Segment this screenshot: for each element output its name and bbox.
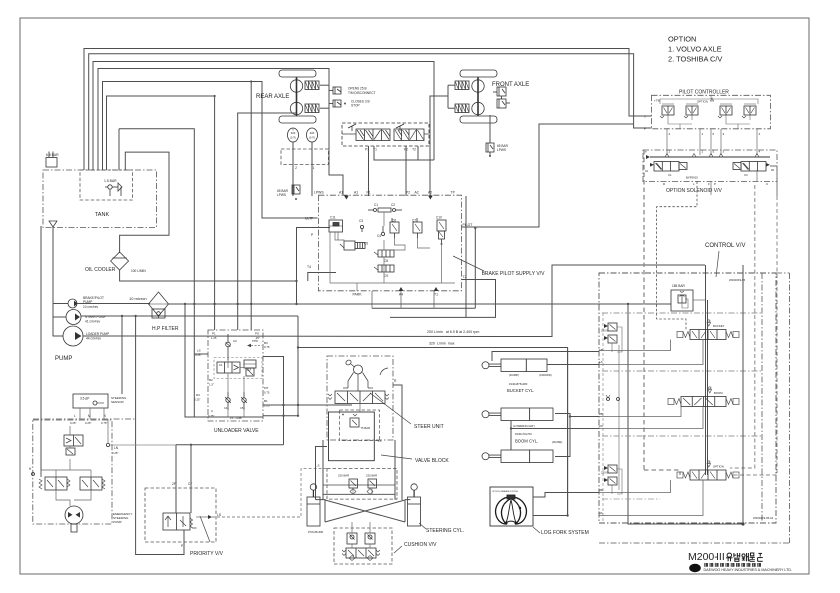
- svg-text:200 L/min at 6.9 B at 2,400: 200 L/min at 6.9 B at 2,400 rpm: [427, 330, 479, 334]
- wire boom A/B: [599, 407, 681, 417]
- wire tank-to-pilot-controller T line: [84, 49, 652, 171]
- svg-text:44 cm³/rev: 44 cm³/rev: [86, 337, 101, 341]
- svg-text:C1: C1: [668, 173, 672, 177]
- option solenoid valve right: [741, 162, 766, 172]
- emergency steering boundary: [33, 420, 112, 524]
- wire steer R return: [393, 385, 402, 500]
- pressure switch OPENS 25B: [333, 87, 341, 94]
- steer handle arc: [380, 368, 388, 375]
- svg-text:MT: MT: [264, 386, 268, 390]
- pilot controller boundary: [652, 95, 771, 129]
- steer relief box: [340, 410, 380, 441]
- svg-text:#140x875x480: #140x875x480: [509, 382, 528, 386]
- svg-text:PUMP: PUMP: [55, 356, 72, 362]
- option solenoid rail: [650, 156, 770, 158]
- front axle diff lock block: [497, 87, 506, 96]
- front axle tire bottom: [460, 116, 497, 123]
- svg-text:T: T: [644, 115, 646, 119]
- wire steer pump tap to priority: [136, 316, 184, 555]
- pilot valve 1: [662, 106, 674, 115]
- brake valve pedal link: [342, 133, 356, 135]
- wire unloader internals: [227, 360, 229, 368]
- wire cushion links: [351, 522, 353, 533]
- wire steer pump tap to sensor: [121, 316, 123, 394]
- svg-text:OPTION: OPTION: [668, 35, 696, 44]
- svg-text:R3: R3: [196, 393, 200, 397]
- svg-text:L: L: [74, 414, 76, 418]
- wire brake valve T2 drop: [417, 146, 419, 160]
- front axle brake disc bottom: [472, 102, 484, 114]
- svg-text:LPWS: LPWS: [314, 191, 324, 195]
- svg-text:1.5": 1.5": [209, 383, 214, 387]
- log fork jaws: [496, 497, 510, 524]
- unloader TPW dashed stub: [251, 345, 262, 347]
- cushion bottom diamonds: [349, 556, 355, 561]
- wire log fork lines: [533, 493, 599, 498]
- suction strainer: [49, 221, 57, 227]
- emergency spool valve right: [80, 477, 102, 490]
- steer unit spring left: [328, 394, 332, 400]
- svg-text:0.25": 0.25": [195, 353, 201, 357]
- svg-text:C2: C2: [391, 203, 395, 207]
- wire pilot drain to tank: [119, 129, 194, 417]
- wire steer pump output: [81, 315, 298, 317]
- steer unit spring right: [385, 394, 389, 400]
- control valve inner boundary: [761, 273, 763, 523]
- wire loader pump output: [83, 265, 705, 337]
- pressure switch 65 BAR LPWS front: [486, 143, 494, 152]
- wire T4 drain: [308, 273, 336, 282]
- svg-text:BRAKE PILOT SUPPLY V/V: BRAKE PILOT SUPPLY V/V: [482, 271, 545, 277]
- wire oil cooler inlet: [120, 152, 169, 252]
- wire unloader B3 drop: [263, 357, 284, 445]
- svg-text:3A: 3A: [599, 511, 603, 515]
- svg-text:230 B: 230 B: [601, 471, 608, 475]
- svg-text:1X: 1X: [378, 439, 382, 443]
- svg-text:TP: TP: [451, 191, 456, 195]
- wire rear axle brake line: [98, 69, 329, 171]
- priority valve spool: [163, 513, 190, 530]
- svg-text:#70x35x390: #70x35x390: [308, 530, 324, 534]
- accumulator 1: [288, 128, 299, 142]
- svg-text:T4: T4: [307, 265, 311, 269]
- unloader solenoid C1A: [244, 360, 256, 368]
- wire priority supply line: [176, 444, 284, 446]
- wire pilot line after filter: [169, 303, 672, 305]
- wire PARK drop: [356, 283, 358, 291]
- control valve relief drain rail: [618, 345, 620, 490]
- svg-text:CONTROL V/V: CONTROL V/V: [705, 243, 745, 249]
- wire tank return drop: [118, 129, 120, 170]
- svg-text:C3: C3: [744, 173, 748, 177]
- priority valve spring: [190, 518, 197, 528]
- wire priority feeds: [175, 445, 177, 513]
- svg-text:C11: C11: [330, 216, 336, 220]
- wire sensor drops: [79, 408, 81, 419]
- svg-text:VALVE BLOCK: VALVE BLOCK: [415, 458, 449, 464]
- oil cooler: [111, 252, 129, 270]
- rear axle caliper top: [305, 81, 319, 90]
- pilot valve 2: [686, 106, 698, 115]
- svg-text:LS: LS: [217, 513, 222, 517]
- svg-text:(CROWD): (CROWD): [539, 373, 552, 377]
- svg-text:02: 02: [771, 168, 775, 172]
- option valve spool: [690, 470, 726, 480]
- wire steer spool to relief: [359, 404, 361, 413]
- svg-text:BUCKET CYL.: BUCKET CYL.: [507, 388, 534, 393]
- pressure switch 65 BAR LPWS rear: [292, 185, 300, 194]
- svg-text:0.25": 0.25": [112, 451, 118, 455]
- svg-text:(0.7l): (0.7l): [290, 136, 296, 140]
- svg-text:+TB: +TB: [654, 99, 660, 103]
- brake pilot pump: [68, 299, 77, 308]
- wire suction line: [53, 227, 63, 336]
- rear axle brake disc bottom: [290, 102, 302, 114]
- svg-text:C2: C2: [233, 339, 237, 343]
- svg-text:P: P: [181, 544, 183, 548]
- wire brake pump output: [77, 303, 150, 305]
- svg-text:C9: C9: [384, 274, 388, 278]
- svg-text:320 L/min max: 320 L/min max: [429, 342, 455, 346]
- svg-text:1.25: 1.25: [211, 336, 217, 340]
- svg-text:0.75: 0.75: [264, 391, 270, 395]
- control valve inner left dashed edge: [602, 313, 604, 523]
- svg-text:P1: P1: [367, 191, 371, 195]
- svg-text:T1: T1: [434, 293, 438, 297]
- wire TP drop: [465, 196, 467, 317]
- emergency steering pump: [65, 506, 83, 524]
- svg-text:T: T: [645, 150, 647, 154]
- svg-text:OIL COOLER: OIL COOLER: [85, 267, 116, 273]
- steer relief 75 BAR: [350, 418, 359, 427]
- svg-text:1A: 1A: [599, 360, 603, 364]
- wire PG drop: [250, 82, 252, 331]
- svg-text:0.75": 0.75": [208, 414, 214, 418]
- logo korean line: [705, 563, 708, 566]
- svg-text:A2: A2: [415, 191, 419, 195]
- option solenoid boundary: [643, 150, 777, 182]
- svg-text:2A: 2A: [599, 424, 603, 428]
- brake supply internal tank rail: [330, 282, 455, 284]
- wire brake supply internals: [383, 212, 385, 226]
- title korean: [727, 553, 731, 557]
- svg-text:M200-: M200-: [688, 551, 718, 563]
- svg-text:R2: R2: [209, 378, 213, 382]
- steer unit spool: [335, 391, 385, 404]
- wire brake valve tank return: [93, 62, 434, 171]
- cushion check left: [347, 533, 357, 544]
- svg-text:400: 400: [310, 131, 315, 135]
- svg-text:LPWS: LPWS: [497, 148, 506, 152]
- wire bucket cyl lines: [492, 352, 599, 362]
- option circuit bottom boundary: [599, 542, 790, 544]
- steering relief boundary: [327, 469, 397, 500]
- svg-text:OPTION SOLENOID V/V: OPTION SOLENOID V/V: [666, 188, 723, 194]
- svg-text:CUSHION V/V: CUSHION V/V: [404, 542, 437, 548]
- svg-text:230 BAR: 230 BAR: [338, 474, 349, 478]
- priority valve boundary: [145, 488, 216, 542]
- svg-text:C4: C4: [224, 406, 228, 410]
- svg-text:REAR AXLE: REAR AXLE: [256, 94, 289, 100]
- svg-text:STEER UNIT: STEER UNIT: [414, 424, 444, 430]
- steering relief rails: [323, 484, 395, 486]
- wire pilot to solenoid connectors: [666, 129, 668, 155]
- svg-text:BUCKET: BUCKET: [713, 324, 725, 328]
- svg-text:01: 01: [645, 169, 649, 173]
- bucket valve spool: [690, 330, 726, 340]
- svg-text:C8: C8: [384, 259, 388, 263]
- rear axle brake disc top: [290, 80, 302, 92]
- valve block side pipes: [322, 440, 324, 500]
- svg-text:SENSOR: SENSOR: [111, 400, 125, 404]
- unloader main spool C1: [217, 362, 240, 373]
- boom cylinder upper: [482, 411, 489, 418]
- boom cylinder lower: [482, 453, 489, 460]
- steer unit yoke: [348, 373, 354, 389]
- svg-text:A1: A1: [339, 191, 343, 195]
- svg-text:TPW: TPW: [252, 339, 258, 343]
- svg-text:P: P: [644, 127, 646, 131]
- svg-text:41 cm³/rev: 41 cm³/rev: [85, 320, 100, 324]
- wire tank-to-pilot-controller P line: [89, 54, 652, 170]
- emergency solenoid valve: [64, 435, 83, 446]
- accumulator manifold box: [281, 149, 328, 165]
- svg-text:C10: C10: [436, 216, 442, 220]
- svg-text:BOOM CYL.: BOOM CYL.: [515, 439, 538, 444]
- pilot controller internal rails: [660, 99, 758, 104]
- svg-text:1B: 1B: [599, 348, 603, 352]
- brake valve pedal left: [348, 124, 356, 128]
- svg-text:PG: PG: [255, 332, 260, 336]
- wire bucket A/B: [599, 340, 671, 351]
- svg-text:W2003F9-05-16: W2003F9-05-16: [753, 516, 774, 520]
- steer unit boundary: [327, 356, 393, 440]
- control valve P rail: [705, 265, 707, 475]
- cushion spool: [346, 548, 376, 558]
- log fork boundary: [490, 487, 533, 526]
- svg-text:P1: P1: [212, 332, 216, 336]
- control valve dashed sections: [602, 312, 762, 314]
- svg-text:P2: P2: [406, 191, 410, 195]
- svg-text:(RAISE): (RAISE): [552, 440, 562, 444]
- wire boom cyl lines: [511, 421, 599, 429]
- wire brake valve P1 drop: [368, 146, 370, 196]
- svg-text:OPENS 25 B: OPENS 25 B: [348, 87, 367, 91]
- steering wheel: [345, 359, 352, 366]
- valve block box: [329, 412, 375, 461]
- pilot valve 3: [720, 106, 732, 115]
- wire axle line drop: [238, 113, 296, 330]
- wire unloader B1 stub: [263, 415, 298, 417]
- LMK port line: [33, 418, 135, 420]
- svg-text:C5: C5: [240, 406, 244, 410]
- emergency spool valve left: [45, 477, 67, 490]
- svg-text:230 BAR: 230 BAR: [366, 474, 377, 478]
- svg-text:STOP: STOP: [351, 104, 360, 108]
- wire ULTP line: [103, 82, 318, 219]
- svg-text:230 B: 230 B: [601, 329, 608, 333]
- wire tank return riser: [628, 304, 743, 524]
- boom valve spool: [681, 397, 726, 407]
- unloader valve boundary: [208, 330, 263, 421]
- svg-text:F: F: [708, 182, 710, 186]
- wire front axle brake line: [107, 96, 215, 170]
- svg-text:185 BAR: 185 BAR: [672, 284, 685, 288]
- unloader inner dashed box: [214, 358, 262, 379]
- svg-text:H.P FILTER: H.P FILTER: [152, 326, 179, 332]
- wire A4 T1 return manifold: [372, 307, 475, 309]
- front axle brake disc top: [472, 80, 484, 92]
- wire emergency internals: [56, 490, 70, 506]
- svg-text:C1: C1: [219, 363, 223, 367]
- svg-text:0.25": 0.25": [85, 421, 91, 425]
- cushion valve boundary: [334, 528, 392, 564]
- svg-text:CF: CF: [188, 482, 192, 486]
- wire tank left drop: [40, 226, 42, 477]
- rear axle caliper bottom: [305, 104, 319, 113]
- svg-text:P: P: [714, 182, 716, 186]
- svg-text:(LOWER/FLOAT): (LOWER/FLOAT): [513, 424, 535, 428]
- svg-text:0.25": 0.25": [70, 421, 76, 425]
- steering cylinder left: [310, 484, 316, 490]
- wire option A/B: [599, 480, 671, 493]
- wire brake valve P2 drop: [405, 146, 407, 196]
- svg-text:BXP5915: BXP5915: [686, 176, 698, 180]
- svg-text:LPWS: LPWS: [277, 193, 286, 197]
- svg-text:400: 400: [291, 131, 296, 135]
- brake valve spool left: [356, 129, 390, 141]
- svg-text:LS→A4B: LS→A4B: [230, 416, 242, 420]
- pilot valve 4: [744, 106, 756, 115]
- wire steer pump supply right: [567, 350, 569, 516]
- svg-text:DAEWOO HEAVY INDUSTRIES &: DAEWOO HEAVY INDUSTRIES & MACHINERY LTD.: [704, 568, 793, 572]
- svg-text:1.5 BAR: 1.5 BAR: [104, 179, 117, 183]
- svg-text:PUMP: PUMP: [113, 520, 122, 524]
- svg-text:10 micron: 10 micron: [129, 296, 147, 301]
- svg-text:3.5 ΔP: 3.5 ΔP: [80, 397, 89, 401]
- wire pilot supply to controller: [462, 124, 634, 227]
- svg-text:6.5 BAR: 6.5 BAR: [46, 153, 59, 157]
- svg-text:PRIORITY V/V: PRIORITY V/V: [190, 551, 224, 557]
- tank assembly boundary: [43, 170, 157, 228]
- wire brake valve T1 drop: [374, 146, 434, 160]
- svg-text:T/M DISCONNECT: T/M DISCONNECT: [348, 91, 376, 95]
- steering cylinder right: [411, 484, 417, 490]
- svg-text:10 cm³/rev: 10 cm³/rev: [83, 305, 98, 309]
- anti cavitation checks: [350, 489, 356, 495]
- svg-text:#130x70x700: #130x70x700: [515, 432, 532, 436]
- wire accumulator 1 drop: [292, 142, 294, 196]
- accumulator 2: [307, 128, 318, 142]
- wire option solenoid drops: [657, 182, 697, 330]
- rear axle tire top: [279, 70, 316, 77]
- svg-text:LS: LS: [197, 349, 201, 353]
- brake valve box: [342, 123, 429, 146]
- brake valve pedal right: [396, 124, 404, 128]
- svg-text:BOOM: BOOM: [714, 391, 723, 395]
- svg-text:2. TOSHIBA C/V: 2. TOSHIBA C/V: [668, 55, 722, 64]
- wire pilot junction drop: [474, 228, 476, 308]
- svg-text:OPTION: OPTION: [713, 465, 724, 469]
- wire 185 bar to P rail: [693, 299, 705, 301]
- wire steer unit L output: [316, 447, 328, 500]
- svg-text:TANK: TANK: [95, 212, 110, 218]
- wire rear brake junction: [329, 69, 343, 196]
- boom check ports: [607, 398, 610, 401]
- wire T2 return line: [390, 280, 496, 318]
- svg-text:0.25": 0.25": [194, 398, 200, 402]
- option circuit right boundary: [789, 273, 791, 543]
- svg-text:C1: C1: [374, 203, 378, 207]
- svg-text:UNLOADER VALVE: UNLOADER VALVE: [214, 428, 259, 434]
- bucket cylinder: [482, 362, 489, 369]
- rear axle tire bottom: [279, 116, 316, 123]
- steer pump: [66, 310, 81, 325]
- svg-text:1: 1: [313, 166, 315, 170]
- svg-text:3B: 3B: [599, 488, 603, 492]
- svg-text:100 L/MIN: 100 L/MIN: [131, 269, 146, 273]
- svg-text:ULTP: ULTP: [305, 217, 314, 221]
- svg-text:LN: LN: [114, 446, 119, 450]
- front axle caliper bottom: [455, 104, 469, 113]
- svg-text:M: M: [88, 414, 91, 418]
- svg-text:PILOT CONTROLLER: PILOT CONTROLLER: [679, 90, 729, 96]
- wire P port tap: [297, 228, 331, 305]
- breather 6.5 BAR: [46, 158, 57, 168]
- svg-text:(0.7l): (0.7l): [309, 136, 315, 140]
- wire unloader P1 drop: [214, 96, 216, 330]
- svg-text:PILOT: PILOT: [463, 223, 473, 227]
- wire front brake junction: [447, 85, 449, 108]
- wire unloader taps: [185, 304, 263, 417]
- svg-text:(DUMP): (DUMP): [509, 373, 519, 377]
- svg-text:T2: T2: [412, 148, 416, 152]
- svg-text:2: 2: [295, 166, 297, 170]
- rear axle shaft: [296, 77, 298, 116]
- tank box: [80, 170, 133, 200]
- front axle caliper top: [455, 81, 469, 90]
- hp filter: [149, 292, 169, 316]
- svg-text:0.75": 0.75": [101, 421, 107, 425]
- svg-text:B1: B1: [264, 399, 268, 403]
- wire accumulator 2 drop: [311, 142, 313, 196]
- wire diff lock drop: [489, 115, 491, 143]
- svg-text:OPTION GRABBING PIPING: OPTION GRABBING PIPING: [492, 490, 519, 493]
- svg-text:75 BAR: 75 BAR: [361, 426, 371, 430]
- front axle tire top: [460, 70, 497, 77]
- wire 320 flow line: [298, 348, 568, 516]
- svg-text:LOG FORK SYSTEM: LOG FORK SYSTEM: [541, 530, 589, 536]
- control valve boundary: [599, 273, 776, 523]
- front axle shaft: [477, 77, 479, 116]
- svg-text:III: III: [716, 551, 725, 563]
- cushion check right: [365, 533, 375, 544]
- control valve T rail: [742, 265, 744, 524]
- steering sensor assembly: [73, 394, 108, 408]
- svg-text:A2: A2: [428, 191, 432, 195]
- svg-text:C4: C4: [377, 234, 381, 238]
- svg-text:STEERING CYL.: STEERING CYL.: [426, 528, 464, 534]
- svg-text:A1: A1: [354, 191, 358, 195]
- wire oil cooler return: [120, 270, 297, 281]
- steering cross pipes: [325, 500, 405, 522]
- svg-text:PARK: PARK: [353, 293, 363, 297]
- svg-text:1. VOLVO AXLE: 1. VOLVO AXLE: [668, 45, 722, 54]
- logo: [689, 564, 701, 572]
- svg-text:0.75: 0.75: [264, 345, 270, 349]
- svg-text:OPTION: OPTION: [697, 100, 708, 104]
- svg-text:C3: C3: [359, 219, 363, 223]
